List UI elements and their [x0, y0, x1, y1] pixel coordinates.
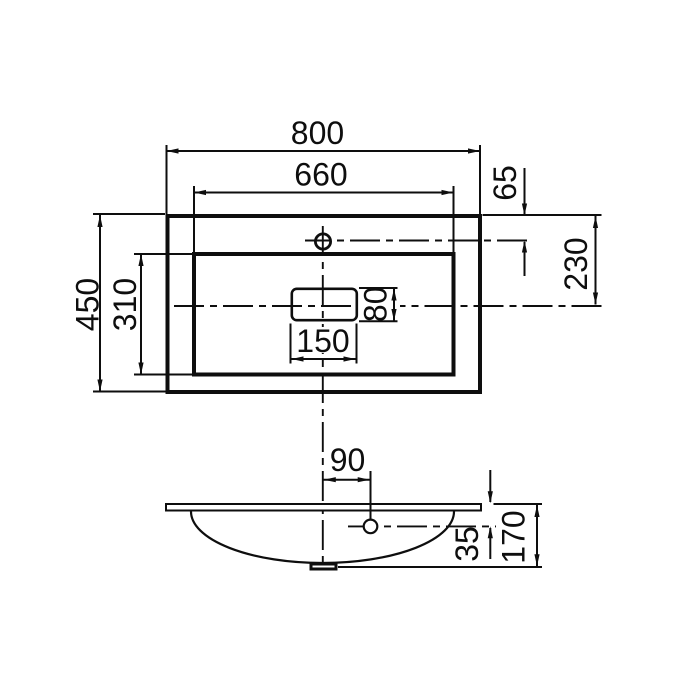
dim 800 arrows — [167, 148, 481, 153]
faucet hole — [315, 234, 330, 249]
dim 150 extension lines — [291, 324, 357, 364]
svg-text:800: 800 — [291, 115, 344, 151]
dim 90 arrows — [324, 477, 370, 482]
inner basin rect (top view) — [194, 254, 454, 375]
top edge right extension line — [483, 214, 602, 216]
dim 150 label background — [297, 327, 349, 353]
dim 660 extension lines — [194, 186, 454, 252]
dim 450 line — [99, 215, 101, 392]
dim 310 arrows — [138, 254, 143, 375]
centerline vertical (basin axis) — [322, 226, 324, 565]
countertop slab (front view) — [166, 504, 481, 511]
dim 450 extension lines — [93, 214, 166, 392]
dim 800 line — [167, 150, 481, 152]
dim 660 arrows — [194, 190, 454, 195]
basin bowl profile (front view) — [191, 512, 454, 564]
svg-text:660: 660 — [294, 157, 347, 193]
dim 35 leader lines — [489, 470, 491, 559]
dim 660 line — [194, 192, 454, 194]
dim 90 extension line — [370, 471, 372, 520]
centerline faucet hole (top view) — [305, 240, 527, 242]
svg-text:150: 150 — [296, 323, 349, 359]
dim 35 arrows — [488, 491, 493, 538]
dim 310 line — [140, 254, 142, 375]
svg-text:310: 310 — [107, 278, 143, 331]
centerline horizontal right part — [400, 305, 602, 307]
dim 170 extension lines — [338, 504, 542, 567]
centerline overflow hole (front view) — [348, 525, 496, 527]
dim 450 arrows — [97, 215, 102, 392]
svg-text:35: 35 — [449, 526, 485, 562]
dim 310 extension lines — [134, 254, 192, 375]
dim 65 leader lines — [524, 168, 526, 276]
dim 80 extension lines — [359, 288, 398, 321]
dim 230 arrows — [593, 216, 598, 305]
overflow slot rect — [292, 289, 357, 320]
dim 150 arrows — [292, 356, 356, 361]
dim 170 arrows — [534, 505, 539, 566]
svg-text:80: 80 — [358, 287, 394, 323]
dim 80 arrows — [391, 289, 396, 322]
dim 65 arrows — [522, 204, 527, 253]
dim 230 line — [595, 215, 597, 305]
dim 90 line — [323, 479, 371, 481]
dim 170 line — [536, 505, 538, 567]
dim 90 label background — [330, 445, 366, 472]
dim 800 extension lines — [167, 145, 481, 214]
centerline horizontal (basin axis top view) — [174, 305, 358, 307]
dim 150 line — [291, 358, 357, 360]
svg-text:90: 90 — [330, 442, 366, 478]
svg-text:450: 450 — [70, 278, 106, 331]
overflow hole (front view) — [364, 520, 378, 534]
svg-text:230: 230 — [558, 237, 594, 290]
drain outlet — [311, 564, 336, 569]
svg-text:65: 65 — [487, 165, 523, 201]
svg-text:170: 170 — [496, 510, 532, 563]
dim 80 line — [393, 288, 395, 321]
outer basin rect (top view) — [168, 216, 481, 392]
